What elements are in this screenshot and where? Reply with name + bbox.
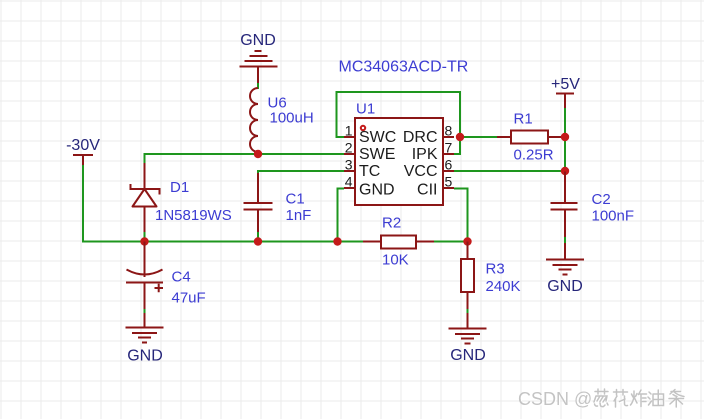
- capacitor C4 47uF (polarized): [126, 242, 206, 311]
- svg-text:R3: R3: [486, 261, 505, 278]
- wire (C2 to ground): [564, 237, 566, 244]
- inductor U6 100uH: [250, 88, 314, 152]
- wire (SWC/DRC top net): [337, 92, 461, 154]
- svg-text:0.25R: 0.25R: [514, 147, 554, 164]
- svg-text:GND: GND: [450, 347, 486, 364]
- wire (bottom net horizontal): [82, 241, 468, 242]
- svg-text:5: 5: [445, 174, 453, 190]
- junction node (pin 5 / R3 / bottom net): [463, 237, 471, 245]
- svg-text:TC: TC: [359, 163, 380, 180]
- wire (GND to L1): [257, 83, 259, 89]
- ic U1 MC34063ACD-TR: [339, 59, 469, 206]
- svg-text:C2: C2: [592, 191, 611, 208]
- wire (GND pin 4 riser): [338, 189, 345, 242]
- svg-text:-30V: -30V: [66, 137, 100, 154]
- svg-text:C4: C4: [172, 269, 191, 286]
- junction node (pin 8 / R1 net): [456, 133, 464, 141]
- svg-text:GND: GND: [127, 348, 163, 365]
- svg-text:+5V: +5V: [551, 76, 580, 93]
- junction node (pin 4 riser / bottom net): [333, 237, 341, 245]
- junction node (R1 / +5V net): [561, 133, 569, 141]
- svg-text:240K: 240K: [486, 278, 521, 295]
- svg-text:R1: R1: [514, 111, 533, 128]
- junction node (VCC net): [561, 167, 569, 175]
- wire (VCC pin 6 net): [454, 170, 565, 172]
- resistor R3 240K: [461, 242, 521, 311]
- wire (C4 to ground): [144, 309, 146, 314]
- resistor R1 0.25R: [497, 111, 562, 164]
- svg-text:SWE: SWE: [359, 146, 395, 163]
- svg-text:IPK: IPK: [412, 146, 438, 163]
- junction node (C1 / bottom net): [254, 237, 262, 245]
- svg-text:U1: U1: [356, 101, 375, 118]
- wire (bottom of C1): [257, 232, 259, 242]
- svg-text:100nF: 100nF: [592, 208, 635, 225]
- svg-text:3: 3: [345, 157, 353, 173]
- power port -30V: [66, 137, 100, 166]
- svg-text:1N5819WS: 1N5819WS: [155, 207, 232, 224]
- wire (SWE net horizontal): [145, 153, 345, 155]
- svg-text:7: 7: [445, 140, 453, 156]
- svg-text:100uH: 100uH: [270, 110, 314, 127]
- svg-text:1nF: 1nF: [286, 207, 312, 224]
- wire (R3 to ground): [467, 309, 469, 314]
- svg-text:GND: GND: [547, 278, 583, 295]
- power port +5V: [551, 76, 580, 109]
- svg-text:8: 8: [445, 123, 453, 139]
- svg-text:2: 2: [345, 140, 353, 156]
- svg-text:10K: 10K: [382, 252, 409, 269]
- svg-text:VCC: VCC: [404, 163, 438, 180]
- svg-text:CII: CII: [417, 182, 437, 199]
- svg-text:CSDN @: CSDN @: [518, 389, 592, 409]
- ground GND (under C4): [126, 313, 164, 365]
- svg-text:DRC: DRC: [403, 129, 438, 146]
- svg-text:47uF: 47uF: [172, 290, 206, 307]
- capacitor C1 1nF: [244, 173, 312, 233]
- wire (-30V down to bottom net): [82, 165, 84, 241]
- svg-text:D1: D1: [170, 179, 189, 196]
- svg-text:1: 1: [345, 123, 353, 139]
- svg-text:GND: GND: [359, 182, 395, 199]
- ground GND (under C2): [546, 243, 584, 295]
- svg-text:4: 4: [345, 174, 353, 190]
- wire (+5V down): [564, 108, 566, 171]
- watermark CSDN: [518, 389, 685, 410]
- wire (pin 8 to R1): [460, 136, 565, 138]
- wire (bottom of D1): [144, 232, 146, 242]
- ground GND (under R3): [449, 313, 487, 364]
- svg-text:SWC: SWC: [359, 129, 396, 146]
- svg-text:GND: GND: [240, 32, 276, 49]
- junction node (D1 / bottom net): [140, 237, 148, 245]
- wire (top of D1): [144, 153, 146, 164]
- junction node (inductor / SWE net): [254, 150, 262, 158]
- power port GND (top): [240, 32, 278, 84]
- svg-text:MC34063ACD-TR: MC34063ACD-TR: [339, 59, 469, 76]
- wire (CII pin 5 net): [454, 189, 468, 242]
- capacitor C2 100nF: [551, 172, 635, 239]
- diode D1 1N5819WS: [131, 163, 232, 233]
- svg-text:6: 6: [445, 157, 453, 173]
- svg-text:R2: R2: [382, 215, 401, 232]
- resistor R2 10K: [363, 215, 434, 269]
- wire (TC pin 3 net): [258, 170, 344, 174]
- svg-text:C1: C1: [286, 191, 305, 208]
